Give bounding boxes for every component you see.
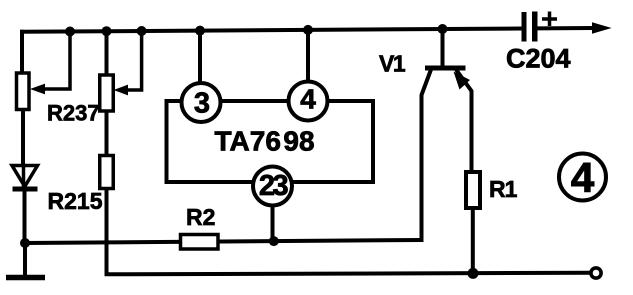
svg-text:V1: V1 <box>379 51 406 77</box>
svg-text:4: 4 <box>571 154 595 201</box>
svg-text:C204: C204 <box>506 44 571 74</box>
svg-text:R2: R2 <box>186 204 215 230</box>
svg-text:R237: R237 <box>47 101 100 126</box>
svg-text:R1: R1 <box>489 176 518 202</box>
svg-text:TA7698: TA7698 <box>215 126 315 157</box>
svg-text:3: 3 <box>194 88 210 120</box>
svg-text:23: 23 <box>259 170 289 202</box>
svg-text:R215: R215 <box>48 188 103 214</box>
svg-text:4: 4 <box>300 84 316 115</box>
